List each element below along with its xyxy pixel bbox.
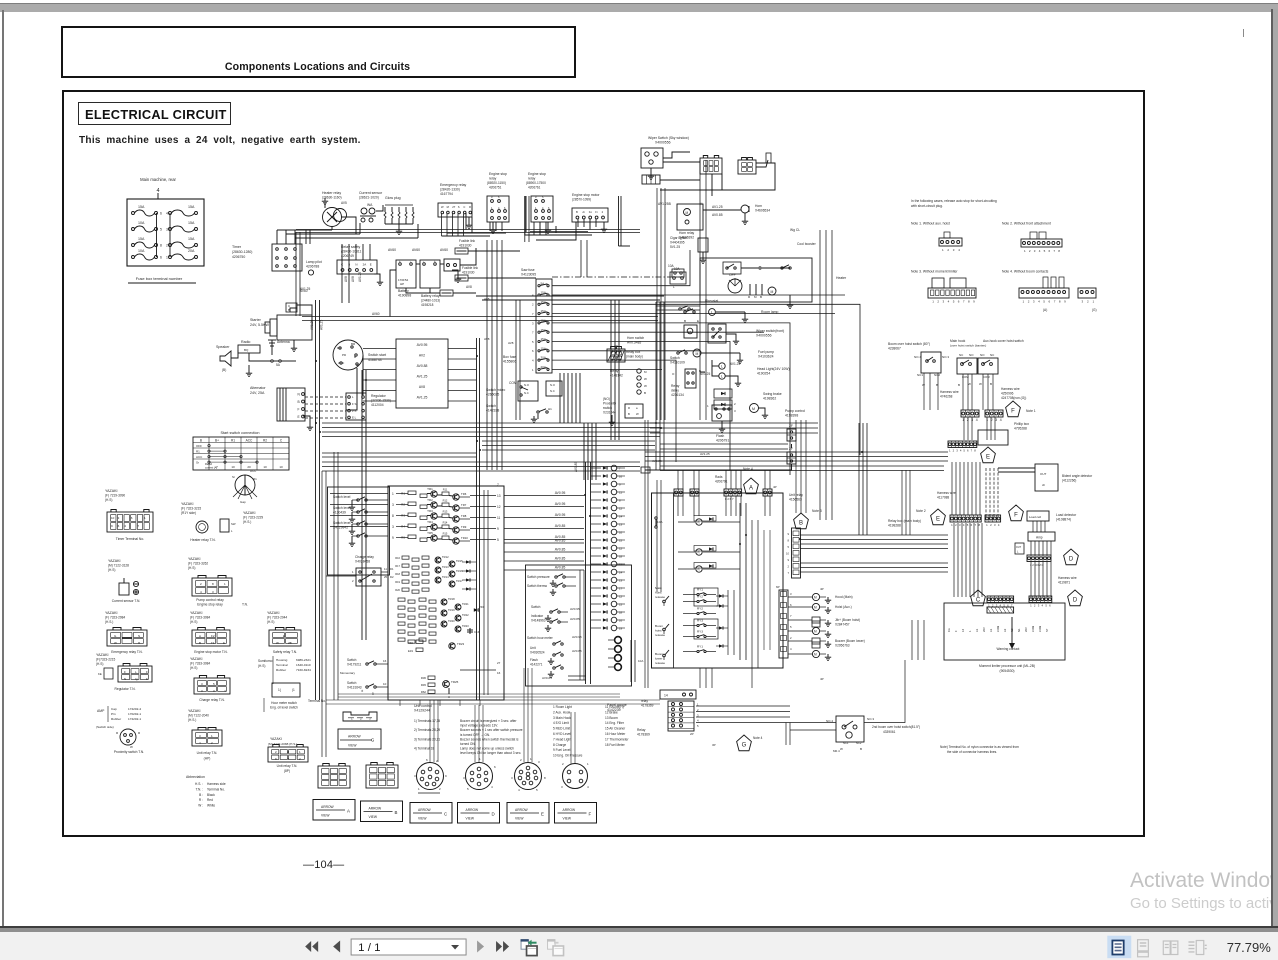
pentagon D mid <box>1064 549 1079 565</box>
svg-text:Terminal No.: Terminal No. <box>308 699 326 703</box>
svg-text:H.S. :: H.S. : <box>195 782 203 786</box>
single right arrow <box>477 940 484 952</box>
current sensor <box>361 208 367 214</box>
svg-text:R2: R2 <box>401 502 405 506</box>
engine stop relay 1 <box>487 196 509 222</box>
svg-text:4238067: 4238067 <box>888 347 901 351</box>
pump control relay <box>712 405 732 421</box>
svg-text:X4123095: X4123095 <box>521 273 536 277</box>
indicator lamp 20 <box>611 617 617 623</box>
svg-text:2: 2 <box>1029 249 1031 253</box>
connector strip E mid <box>950 515 981 522</box>
svg-text:lower: lower <box>655 657 662 661</box>
svg-text:Hood (Main): Hood (Main) <box>835 595 853 599</box>
svg-text:TR6: TR6 <box>461 492 467 496</box>
svg-text:Emergency relay T.N.: Emergency relay T.N. <box>111 650 143 654</box>
svg-text:In the following cases, releas: In the following cases, release auto sto… <box>911 199 997 203</box>
svg-text:5V1.25: 5V1.25 <box>670 245 680 249</box>
svg-text:15A: 15A <box>138 237 145 241</box>
engine stop relay 1 ground <box>492 222 494 227</box>
svg-text:Speaker: Speaker <box>216 345 230 349</box>
svg-text:RY3: RY3 <box>697 630 703 634</box>
svg-text:Unit relay T.N.: Unit relay T.N. <box>197 751 218 755</box>
svg-text:X4129244: X4129244 <box>414 709 430 713</box>
indicator diode 8 <box>591 523 601 525</box>
svg-text:7: 7 <box>963 300 965 304</box>
svg-text:(H.S): (H.S) <box>105 498 112 502</box>
svg-text:TR21: TR21 <box>462 602 469 606</box>
svg-text:3P: 3P <box>712 743 716 747</box>
transistor TR6 <box>453 494 459 500</box>
svg-text:M: M <box>644 370 647 374</box>
svg-text:Hour meter switch: Hour meter switch <box>271 701 297 705</box>
junction dots <box>315 422 317 424</box>
wire bus AV1.25 vertical <box>315 300 317 700</box>
svg-text:17 Thermometer: 17 Thermometer <box>605 737 629 741</box>
svg-text:X4000556: X4000556 <box>655 141 671 145</box>
wiper sky wiring <box>663 152 690 158</box>
svg-text:R45: R45 <box>421 683 427 687</box>
svg-text:16: 16 <box>619 619 623 623</box>
indicator diode 18 <box>591 603 601 605</box>
indicator diode 9 <box>591 531 601 533</box>
svg-text:N.C: N.C <box>524 391 529 395</box>
round connector C <box>417 763 444 790</box>
svg-text:TR9: TR9 <box>461 525 467 529</box>
radio <box>238 345 260 353</box>
svg-text:Switch level: Switch level <box>333 495 351 499</box>
svg-text:4156563: 4156563 <box>789 498 802 502</box>
relay safety <box>337 260 377 274</box>
svg-text:15A: 15A <box>188 205 195 209</box>
svg-text:3: 3 <box>118 516 120 520</box>
svg-text:4: 4 <box>199 741 201 745</box>
heater motor <box>768 287 776 295</box>
svg-text:Engine stop motor T.N.: Engine stop motor T.N. <box>194 650 228 654</box>
svg-text:3: 3 <box>392 525 394 529</box>
output device 2 <box>812 603 819 610</box>
svg-text:4 E/G Limit: 4 E/G Limit <box>553 721 569 725</box>
svg-text:15: 15 <box>619 539 623 543</box>
svg-text:15A: 15A <box>188 237 195 241</box>
hour meter switch terminal <box>272 683 300 697</box>
note 4 connector small <box>1078 288 1096 298</box>
svg-text:4206791: 4206791 <box>715 480 728 484</box>
svg-text:Wg CL: Wg CL <box>790 228 800 232</box>
svg-text:W: W <box>636 412 639 416</box>
svg-text:C: C <box>444 812 447 817</box>
svg-text:Switch level: Switch level <box>333 506 351 510</box>
svg-text:R3: R3 <box>401 513 405 517</box>
svg-text:3: 3 <box>201 689 203 693</box>
svg-text:15: 15 <box>619 603 623 607</box>
bank switch contact <box>663 628 666 631</box>
resistor R8 <box>420 516 427 519</box>
indicator lamp 2 <box>611 473 617 479</box>
svg-text:13: 13 <box>497 494 501 498</box>
pentagon F mid <box>1009 505 1024 521</box>
pump control relay terminal <box>192 578 232 596</box>
svg-text:1: 1 <box>1023 300 1025 304</box>
svg-text:YAZAKI: YAZAKI <box>181 502 194 506</box>
connector strip amp <box>1027 555 1051 562</box>
svg-text:C: C <box>463 205 465 209</box>
svg-text:5: 5 <box>536 788 538 792</box>
arrow view B box <box>361 801 403 822</box>
svg-text:(28430-10811: (28430-10811 <box>341 250 361 254</box>
svg-text:Cigar lighter: Cigar lighter <box>670 236 688 240</box>
svg-text:AV0.85: AV0.85 <box>542 676 552 680</box>
svg-text:B: B <box>628 412 630 416</box>
resistor R12 <box>442 503 449 506</box>
svg-text:R: R <box>138 731 141 735</box>
svg-text:(F) 7323-3215: (F) 7323-3215 <box>181 507 201 511</box>
heater relay terminal <box>196 521 208 533</box>
svg-text:(Switch side): (Switch side) <box>96 725 114 729</box>
svg-text:4: 4 <box>491 785 493 789</box>
svg-text:B: B <box>200 438 202 442</box>
svg-text:N.O: N.O <box>550 383 556 387</box>
svg-text:R4: R4 <box>401 524 405 528</box>
svg-text:YAZAKI: YAZAKI <box>190 657 203 661</box>
svg-text:2: 2 <box>953 449 955 453</box>
svg-text:release: release <box>655 595 665 599</box>
svg-text:5: 5 <box>790 625 792 629</box>
svg-text:6: 6 <box>494 765 496 769</box>
previous view icon <box>521 939 537 955</box>
svg-text:W: W <box>130 745 133 749</box>
svg-text:B: B <box>298 400 300 404</box>
svg-text:turned ON.: turned ON. <box>460 742 476 746</box>
wire heater relay to bus <box>341 217 356 234</box>
svg-text:3: 3 <box>1034 249 1036 253</box>
svg-text:10: 10 <box>263 465 267 469</box>
svg-text:AV1.25: AV1.25 <box>712 205 723 209</box>
output device 3 <box>812 617 820 623</box>
svg-text:20V: 20V <box>982 627 986 632</box>
svg-text:WA: WA <box>367 203 373 207</box>
connector 9P vertical <box>792 528 801 578</box>
svg-text:4198398: 4198398 <box>785 414 798 418</box>
double left arrow <box>305 941 318 952</box>
wire center vertical bundle 487-502 <box>486 240 488 470</box>
svg-text:8: 8 <box>968 300 970 304</box>
wire relay bus long <box>800 534 948 536</box>
heater relay ground <box>324 203 326 208</box>
resistor cluster R36-R60 rows <box>398 598 405 601</box>
connector trapezoid G <box>343 712 377 721</box>
svg-text:R60: R60 <box>408 641 414 645</box>
svg-text:9: 9 <box>111 524 113 528</box>
svg-text:(over hoist switch (banten): (over hoist switch (banten) <box>950 344 986 348</box>
bottom dark separator <box>0 926 1278 928</box>
subtitle <box>79 135 361 146</box>
svg-text:11 RADIO(H): 11 RADIO(H) <box>605 705 624 709</box>
svg-text:(M) 7122-2040: (M) 7122-2040 <box>188 714 209 718</box>
wire top-right loop <box>476 295 664 297</box>
transistor TR9 <box>453 527 459 533</box>
svg-text:4206761: 4206761 <box>528 186 541 190</box>
indicator diode 1 <box>591 467 601 469</box>
view icon enable scrolling <box>1138 939 1149 956</box>
svg-text:4191030: 4191030 <box>459 244 472 248</box>
svg-text:2: 2 <box>439 787 441 791</box>
svg-text:6: 6 <box>118 524 120 528</box>
svg-text:Switch micro: Switch micro <box>486 388 505 392</box>
svg-text:)1: )1 <box>292 688 295 692</box>
svg-text:5: 5 <box>967 523 969 527</box>
svg-text:9 Fuel Level: 9 Fuel Level <box>553 748 571 752</box>
svg-text:R: R <box>748 295 751 299</box>
horn connector grid <box>607 349 625 362</box>
svg-text:10: 10 <box>279 465 283 469</box>
arrow view F box <box>555 803 597 824</box>
svg-text:AV8: AV8 <box>351 276 355 282</box>
svg-text:Charge relay: Charge relay <box>355 555 374 559</box>
svg-text:AV0.85: AV0.85 <box>555 566 566 570</box>
connector strip E top <box>948 441 977 448</box>
svg-text:N.O: N.O <box>524 383 530 387</box>
moment limiter enclosure <box>944 603 1065 660</box>
svg-text:Bident angle detector: Bident angle detector <box>1062 474 1093 478</box>
svg-text:Engine stop: Engine stop <box>489 172 507 176</box>
transistor TR23 <box>449 643 455 649</box>
svg-text:B: B <box>576 210 578 214</box>
svg-text:Load cell: Load cell <box>1029 515 1041 519</box>
svg-text:8: 8 <box>1058 249 1060 253</box>
svg-text:10A: 10A <box>138 221 145 225</box>
svg-text:R2: R2 <box>263 438 267 442</box>
svg-text:(H.S.): (H.S.) <box>243 520 251 524</box>
svg-text:Boom: Boom <box>655 652 664 656</box>
resistor R10 <box>420 538 427 541</box>
svg-text:14: 14 <box>619 515 623 519</box>
svg-text:15A: 15A <box>541 328 546 332</box>
svg-text:S: S <box>458 205 460 209</box>
svg-text:Note 4. Without boom contacts: Note 4. Without boom contacts <box>1002 270 1049 274</box>
svg-text:4: 4 <box>1038 300 1040 304</box>
fuse 15A row 6 <box>538 331 540 333</box>
svg-text:10: 10 <box>786 552 789 556</box>
svg-text:3: 3 <box>1038 604 1040 608</box>
svg-text:4206788: 4206788 <box>306 265 319 269</box>
svg-text:Buzzer sounds when switch the: Buzzer sounds when switch thermostat is <box>460 737 519 741</box>
svg-text:20A: 20A <box>188 249 195 253</box>
svg-text:Note) Terminal No. of nylon c: Note) Terminal No. of nylon connector is… <box>940 745 1019 749</box>
wire bank verticals <box>739 503 741 660</box>
svg-text:L: L <box>721 374 723 378</box>
svg-text:AV0.3485: AV0.3485 <box>627 341 641 345</box>
svg-text:VIEW: VIEW <box>418 817 427 821</box>
svg-text:TR22: TR22 <box>462 613 469 617</box>
svg-text:W: W <box>114 641 117 645</box>
connector C underline <box>418 792 440 794</box>
svg-text:4206749: 4206749 <box>341 254 354 258</box>
svg-text:X2847457: X2847457 <box>835 623 850 627</box>
svg-text:9: 9 <box>445 774 447 778</box>
starter ground <box>293 340 295 345</box>
svg-text:Regulator T.N.: Regulator T.N. <box>114 687 135 691</box>
indicator lamp 11 <box>611 545 617 551</box>
note 1 connector <box>939 238 962 246</box>
svg-text:AV1.25: AV1.25 <box>358 272 362 282</box>
svg-text:X4110109: X4110109 <box>670 361 685 365</box>
svg-text:(H.S.): (H.S.) <box>105 620 113 624</box>
resistor R3 <box>408 513 416 517</box>
fuse 15A row 3 <box>538 303 540 305</box>
svg-text:Timer Terminal No.: Timer Terminal No. <box>116 537 145 541</box>
svg-text:B: B <box>199 641 201 645</box>
svg-text:White: White <box>207 804 215 808</box>
svg-text:M: M <box>814 653 817 657</box>
svg-text:ARROW: ARROW <box>563 808 577 812</box>
svg-text:18 Fuel Meter: 18 Fuel Meter <box>605 743 626 747</box>
svg-text:Starter: Starter <box>250 318 262 322</box>
svg-text:7: 7 <box>497 483 499 487</box>
wire bottom long horizontals <box>326 699 660 701</box>
engine stop motor terminal <box>192 630 230 646</box>
svg-text:1 Room Light: 1 Room Light <box>553 705 572 709</box>
pentagon G b <box>737 735 752 751</box>
svg-text:P K: P K <box>352 409 357 413</box>
svg-text:5A: 5A <box>541 281 545 285</box>
svg-text:AV1.25: AV1.25 <box>700 452 710 456</box>
svg-text:1: 1 <box>392 492 394 496</box>
svg-text:NO.4: NO.4 <box>914 355 921 359</box>
svg-text:Pump control: Pump control <box>785 409 805 413</box>
svg-text:N1: N1 <box>1017 628 1021 632</box>
proximity switch box <box>625 404 643 418</box>
svg-text:Moment limiter processor unit: Moment limiter processor unit (ML-2B) <box>979 664 1035 668</box>
svg-text:4795288: 4795288 <box>1014 427 1027 431</box>
svg-text:G: G <box>742 743 747 749</box>
safety relay terminal <box>269 630 301 646</box>
svg-text:(HP): (HP) <box>204 757 211 761</box>
svg-text:AV60: AV60 <box>372 312 380 316</box>
svg-text:A: A <box>749 486 753 492</box>
svg-text:2: 2 <box>299 757 301 761</box>
svg-text:4339061: 4339061 <box>883 730 896 734</box>
wire NO3 switch feeds <box>790 722 836 724</box>
svg-text:(28621-1020): (28621-1020) <box>359 196 379 200</box>
indicator lamp 13 <box>611 561 617 567</box>
svg-text:AV1.25: AV1.25 <box>320 320 324 330</box>
starter motor <box>277 315 312 340</box>
svg-text:N: N <box>298 392 301 396</box>
svg-text:14: 14 <box>619 571 623 575</box>
svg-text:Saw fuse: Saw fuse <box>521 268 535 272</box>
svg-text:3: 3 <box>561 785 563 789</box>
svg-text:N: N <box>138 634 140 638</box>
svg-text:1 / 1: 1 / 1 <box>358 942 380 954</box>
diode cluster D1-D8 <box>466 560 470 563</box>
relay bank inner rect <box>694 588 718 606</box>
svg-text:10A: 10A <box>657 520 663 524</box>
svg-text:E: E <box>936 517 940 523</box>
svg-text:F: F <box>146 670 148 674</box>
pentagon E mid <box>931 509 946 525</box>
svg-text:TR15: TR15 <box>456 559 463 563</box>
svg-text:YAZAKI: YAZAKI <box>108 559 121 563</box>
fuse 30A row 9 <box>538 359 540 361</box>
fuse 15A row 7 <box>538 340 540 342</box>
wire E to moment bundle <box>911 620 913 660</box>
svg-text:1: 1 <box>949 449 951 453</box>
indicator diode 21 <box>591 627 601 629</box>
svg-text:2: 2 <box>352 579 354 583</box>
svg-text:4198218: 4198218 <box>421 303 434 307</box>
svg-text:COM: COM <box>996 625 1000 632</box>
svg-text:8: 8 <box>160 244 162 248</box>
svg-text:R20: R20 <box>395 588 400 592</box>
svg-text:15A: 15A <box>188 221 195 225</box>
svg-text:4: 4 <box>963 523 965 527</box>
resistor R60 R61 E19 <box>416 640 423 643</box>
svg-text:Rads: Rads <box>715 475 723 479</box>
svg-text:15A: 15A <box>541 300 546 304</box>
svg-text:9: 9 <box>973 300 975 304</box>
indicator diode 13 <box>591 563 601 565</box>
svg-text:M: M <box>814 606 817 610</box>
wiper stalk <box>756 160 768 167</box>
connector strip mid2 <box>985 515 1001 522</box>
svg-text:(F)7323-2215: (F)7323-2215 <box>96 658 116 662</box>
capacitor C16 <box>469 628 471 634</box>
svg-text:5: 5 <box>160 228 162 232</box>
svg-text:1: 1 <box>951 523 953 527</box>
svg-text:VIEW: VIEW <box>321 814 330 818</box>
relay contact circles <box>637 369 641 373</box>
emergency relay <box>438 203 472 217</box>
svg-text:2: 2 <box>211 741 213 745</box>
svg-text:W: W <box>644 384 647 388</box>
wiper motor front <box>684 325 697 338</box>
svg-text:10A: 10A <box>138 249 145 253</box>
wire bus risers right <box>901 470 903 535</box>
indicator lamp 3 <box>611 481 617 487</box>
svg-text:6: 6 <box>160 212 162 216</box>
svg-text:Heater: Heater <box>836 276 847 280</box>
svg-text:Fuel pump: Fuel pump <box>758 350 774 354</box>
svg-text:NC: NC <box>959 353 964 357</box>
svg-text:3: 3 <box>511 776 513 780</box>
svg-text:R1: R1 <box>401 491 405 495</box>
starter solenoid terminals C B <box>286 303 297 312</box>
svg-text:R5: R5 <box>401 535 405 539</box>
svg-text:Boom over hoist switch (80°): Boom over hoist switch (80°) <box>888 342 930 346</box>
svg-text:AV60: AV60 <box>388 248 396 252</box>
svg-text:3: 3 <box>532 321 534 325</box>
svg-text:2T: 2T <box>452 205 455 209</box>
wire top bus to relays <box>296 229 640 231</box>
svg-text:YAZAKI: YAZAKI <box>105 489 118 493</box>
svg-text:E: E <box>223 641 225 645</box>
svg-text:R1: R1 <box>253 477 257 481</box>
svg-text:30A: 30A <box>541 356 546 360</box>
svg-text:Phillip box: Phillip box <box>1014 422 1029 426</box>
svg-text:AV5: AV5 <box>341 201 347 205</box>
svg-text:X2956763: X2956763 <box>835 644 850 648</box>
svg-text:2: 2 <box>937 300 939 304</box>
svg-text:2: 2 <box>166 244 168 248</box>
svg-text:5: 5 <box>697 724 699 728</box>
svg-text:Proximity switch T.N.: Proximity switch T.N. <box>114 750 144 754</box>
svg-text:15 Air Cleaner: 15 Air Cleaner <box>605 727 626 731</box>
svg-text:(F) 7333-3084: (F) 7333-3084 <box>190 662 210 666</box>
svg-text:Warning contact: Warning contact <box>997 647 1020 651</box>
svg-text:Fi: Fi <box>595 210 598 214</box>
svg-text:3: 3 <box>953 248 955 252</box>
